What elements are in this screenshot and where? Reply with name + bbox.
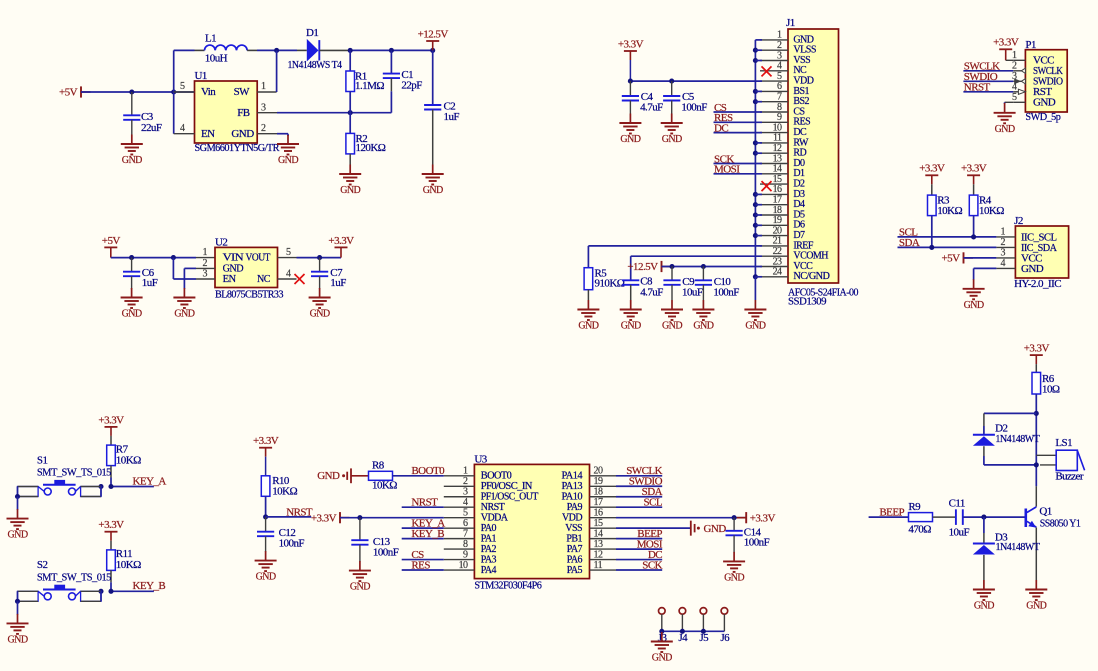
svg-text:10KΩ: 10KΩ: [272, 486, 297, 498]
svg-text:GND: GND: [745, 321, 765, 332]
svg-text:2: 2: [261, 123, 266, 134]
svg-text:GND: GND: [724, 572, 744, 583]
svg-text:10KΩ: 10KΩ: [979, 205, 1004, 217]
svg-text:GND: GND: [310, 309, 330, 320]
svg-text:Q1: Q1: [1039, 506, 1051, 518]
svg-text:PA7: PA7: [567, 544, 583, 555]
svg-text:+3.3V: +3.3V: [98, 519, 124, 531]
svg-text:4.7uF: 4.7uF: [640, 287, 663, 299]
svg-text:PA1: PA1: [481, 534, 497, 545]
svg-text:KEY_B: KEY_B: [133, 580, 166, 592]
svg-text:+3.3V: +3.3V: [993, 37, 1019, 49]
svg-text:3: 3: [203, 269, 208, 280]
svg-text:SMT_SW_TS_015: SMT_SW_TS_015: [37, 571, 112, 583]
svg-text:NC: NC: [257, 273, 270, 285]
svg-text:J6: J6: [720, 632, 730, 644]
svg-text:10KΩ: 10KΩ: [116, 454, 141, 466]
svg-text:EN: EN: [223, 273, 237, 285]
svg-text:24: 24: [773, 267, 782, 278]
svg-text:J1: J1: [786, 17, 795, 29]
svg-text:R8: R8: [372, 459, 385, 471]
svg-text:GND: GND: [620, 134, 640, 145]
svg-text:GND: GND: [1033, 97, 1056, 109]
svg-text:S2: S2: [37, 559, 48, 571]
svg-text:PA2: PA2: [481, 544, 497, 555]
svg-text:DC: DC: [714, 122, 728, 134]
svg-text:7: 7: [463, 528, 468, 539]
svg-text:PA5: PA5: [567, 565, 583, 576]
svg-text:10uF: 10uF: [682, 287, 703, 299]
svg-text:SDA: SDA: [899, 237, 920, 249]
svg-text:+3.3V: +3.3V: [98, 414, 124, 426]
svg-text:C11: C11: [949, 498, 965, 510]
svg-text:SGM6601YTN5G/TR: SGM6601YTN5G/TR: [195, 142, 281, 154]
svg-text:1N4148WT: 1N4148WT: [995, 433, 1040, 445]
svg-text:1uF: 1uF: [142, 277, 158, 289]
svg-text:14: 14: [594, 528, 603, 539]
svg-text:100nF: 100nF: [681, 102, 707, 114]
svg-text:13: 13: [594, 539, 603, 550]
svg-text:PA14: PA14: [562, 471, 583, 482]
svg-text:SMT_SW_TS_015: SMT_SW_TS_015: [37, 467, 112, 479]
svg-text:22uF: 22uF: [141, 122, 162, 134]
svg-text:BL8075CB5TR33: BL8075CB5TR33: [215, 288, 284, 300]
svg-text:PA3: PA3: [481, 554, 497, 565]
svg-text:10KΩ: 10KΩ: [116, 559, 141, 571]
svg-text:+3.3V: +3.3V: [919, 163, 945, 175]
svg-text:S1: S1: [37, 454, 48, 466]
svg-text:100nF: 100nF: [713, 287, 739, 299]
svg-text:NRST: NRST: [481, 502, 505, 513]
svg-text:GND: GND: [122, 155, 142, 166]
svg-text:GND: GND: [693, 321, 713, 332]
svg-text:3: 3: [261, 102, 266, 113]
svg-text:PB1: PB1: [566, 534, 582, 545]
svg-text:PF0/OSC_IN: PF0/OSC_IN: [481, 481, 532, 492]
svg-text:+3.3V: +3.3V: [618, 38, 644, 50]
svg-text:10Ω: 10Ω: [1042, 383, 1060, 395]
svg-text:1: 1: [261, 81, 266, 92]
svg-text:16: 16: [594, 507, 603, 518]
svg-text:3: 3: [1001, 248, 1006, 259]
svg-text:PA13: PA13: [562, 481, 583, 492]
svg-text:100nF: 100nF: [744, 537, 770, 549]
svg-text:RES: RES: [411, 559, 430, 571]
svg-text:4: 4: [180, 123, 185, 134]
svg-text:FB: FB: [237, 107, 250, 119]
svg-text:+3.3V: +3.3V: [1024, 343, 1050, 355]
svg-text:GND: GND: [7, 530, 27, 541]
svg-text:GND: GND: [423, 185, 443, 196]
svg-text:1N4148WS T4: 1N4148WS T4: [288, 59, 343, 71]
svg-text:NRST: NRST: [411, 497, 438, 509]
svg-text:SSD1309: SSD1309: [788, 296, 827, 308]
svg-text:9: 9: [463, 549, 468, 560]
svg-text:+3.3V: +3.3V: [328, 235, 354, 247]
svg-text:PA6: PA6: [567, 554, 583, 565]
svg-text:3: 3: [463, 487, 468, 498]
svg-text:BOOT0: BOOT0: [481, 471, 512, 482]
svg-text:18: 18: [594, 487, 603, 498]
svg-text:GND: GND: [621, 321, 641, 332]
svg-text:GND: GND: [662, 321, 682, 332]
svg-text:MOSI: MOSI: [714, 164, 740, 176]
svg-text:VDD: VDD: [562, 513, 582, 524]
svg-text:GND: GND: [256, 572, 276, 583]
svg-text:5: 5: [180, 81, 185, 92]
svg-text:470Ω: 470Ω: [908, 523, 931, 535]
svg-text:10uF: 10uF: [949, 527, 970, 539]
svg-text:Buzzer: Buzzer: [1055, 472, 1084, 483]
svg-text:5: 5: [286, 247, 291, 258]
svg-text:1uF: 1uF: [330, 277, 346, 289]
svg-text:BOOT0: BOOT0: [411, 465, 445, 477]
svg-text:J5: J5: [699, 632, 709, 644]
svg-text:4: 4: [1001, 258, 1006, 269]
svg-text:5: 5: [1012, 92, 1017, 103]
svg-text:100nF: 100nF: [373, 546, 399, 558]
svg-text:SW: SW: [234, 86, 251, 98]
svg-text:17: 17: [594, 497, 603, 508]
svg-text:U3: U3: [474, 453, 487, 465]
svg-text:GND: GND: [350, 582, 370, 593]
svg-text:GND: GND: [1026, 601, 1046, 612]
svg-text:U1: U1: [195, 70, 207, 82]
svg-text:2: 2: [1012, 61, 1017, 72]
svg-text:15: 15: [594, 518, 603, 529]
svg-text:BEEP: BEEP: [879, 506, 904, 518]
svg-text:NRST: NRST: [286, 506, 313, 518]
svg-text:10: 10: [459, 560, 468, 571]
svg-text:J2: J2: [1014, 215, 1023, 227]
svg-text:GND: GND: [974, 601, 994, 612]
svg-text:GND: GND: [122, 309, 142, 320]
svg-text:2: 2: [203, 258, 208, 269]
svg-text:6: 6: [463, 518, 468, 529]
svg-text:L1: L1: [205, 33, 216, 45]
svg-text:19: 19: [594, 476, 603, 487]
svg-text:GND: GND: [317, 470, 340, 482]
svg-text:PF1/OSC_OUT: PF1/OSC_OUT: [481, 492, 538, 503]
svg-text:+3.3V: +3.3V: [750, 512, 776, 524]
svg-text:GND: GND: [278, 155, 298, 166]
svg-text:GND: GND: [340, 185, 360, 196]
svg-text:10uH: 10uH: [205, 52, 228, 64]
svg-text:1: 1: [203, 247, 208, 258]
svg-text:910KΩ: 910KΩ: [595, 277, 625, 289]
svg-text:120KΩ: 120KΩ: [356, 142, 386, 154]
svg-text:+3.3V: +3.3V: [311, 512, 337, 524]
svg-text:GND: GND: [652, 653, 672, 664]
svg-text:+12.5V: +12.5V: [627, 261, 658, 273]
svg-text:PA9: PA9: [567, 502, 583, 513]
svg-text:P1: P1: [1025, 39, 1036, 51]
svg-text:R9: R9: [908, 501, 921, 513]
svg-text:+5V: +5V: [59, 87, 78, 99]
svg-text:2: 2: [1001, 237, 1006, 248]
svg-text:SS8050 Y1: SS8050 Y1: [1040, 517, 1081, 529]
svg-text:PA10: PA10: [562, 492, 583, 503]
svg-text:+5V: +5V: [942, 253, 961, 265]
svg-text:11: 11: [594, 560, 603, 571]
svg-text:12: 12: [594, 549, 603, 560]
svg-text:GND: GND: [578, 321, 598, 332]
svg-text:GND: GND: [662, 134, 682, 145]
svg-text:20: 20: [594, 466, 603, 477]
svg-text:+12.5V: +12.5V: [418, 28, 449, 40]
svg-text:EN: EN: [201, 128, 215, 140]
svg-text:2: 2: [463, 476, 468, 487]
svg-text:GND: GND: [995, 124, 1015, 135]
svg-text:LS1: LS1: [1055, 437, 1072, 449]
svg-text:1uF: 1uF: [444, 111, 460, 123]
svg-text:SWD_5p: SWD_5p: [1025, 111, 1061, 123]
svg-text:1: 1: [1001, 227, 1006, 238]
svg-text:GND: GND: [231, 128, 254, 140]
svg-text:10KΩ: 10KΩ: [937, 205, 962, 217]
svg-text:1: 1: [1012, 50, 1017, 61]
svg-text:+3.3V: +3.3V: [961, 163, 987, 175]
svg-text:NRST: NRST: [964, 81, 991, 93]
svg-text:NC/GND: NC/GND: [793, 271, 829, 282]
svg-text:+5V: +5V: [102, 235, 121, 247]
svg-text:KEY_A: KEY_A: [133, 475, 167, 487]
svg-text:GND: GND: [1021, 263, 1044, 275]
svg-text:KEY_B: KEY_B: [411, 528, 444, 540]
svg-text:D1: D1: [306, 27, 318, 39]
svg-text:SCL: SCL: [643, 497, 662, 509]
svg-text:PA4: PA4: [481, 565, 497, 576]
svg-text:VDDA: VDDA: [481, 513, 509, 524]
svg-text:1: 1: [463, 466, 468, 477]
svg-text:J4: J4: [678, 632, 688, 644]
svg-text:1N4148WT: 1N4148WT: [996, 541, 1041, 553]
svg-text:Vin: Vin: [201, 86, 216, 98]
svg-text:PA0: PA0: [481, 523, 497, 534]
svg-text:VSS: VSS: [565, 523, 582, 534]
svg-text:GND: GND: [964, 300, 984, 311]
svg-text:4: 4: [463, 497, 468, 508]
svg-text:4.7uF: 4.7uF: [640, 102, 663, 114]
svg-text:U2: U2: [215, 236, 227, 248]
svg-text:22pF: 22pF: [401, 80, 422, 92]
svg-text:VOUT: VOUT: [246, 252, 271, 264]
svg-text:4: 4: [286, 269, 291, 280]
svg-text:HY-2.0_IIC: HY-2.0_IIC: [1014, 278, 1061, 290]
svg-text:SCK: SCK: [642, 559, 662, 571]
svg-text:10KΩ: 10KΩ: [372, 480, 397, 492]
svg-text:STM32F030F4P6: STM32F030F4P6: [474, 580, 542, 592]
svg-text:5: 5: [463, 507, 468, 518]
svg-text:+3.3V: +3.3V: [253, 435, 279, 447]
svg-text:GND: GND: [7, 634, 27, 645]
svg-text:8: 8: [463, 539, 468, 550]
svg-text:1.1MΩ: 1.1MΩ: [355, 80, 384, 92]
svg-text:GND: GND: [174, 309, 194, 320]
svg-text:100nF: 100nF: [279, 537, 305, 549]
svg-text:GND: GND: [704, 523, 727, 535]
